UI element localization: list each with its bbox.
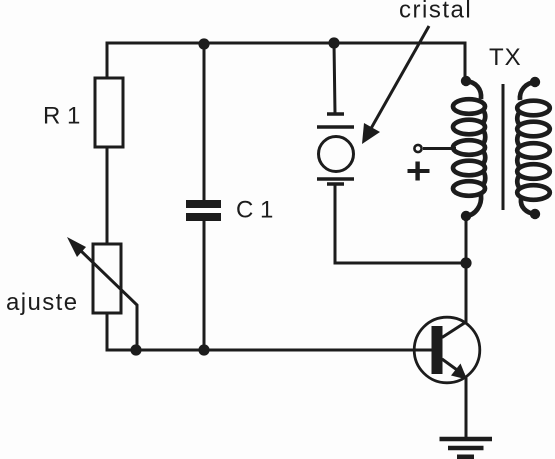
secondary top terminal blob (530, 77, 540, 87)
ground (440, 439, 493, 457)
wire crystal bottom lead (335, 186, 466, 263)
primary top terminal blob (461, 76, 471, 86)
plus symbol (408, 162, 430, 181)
pointer arrow cristal (362, 26, 429, 144)
junction dot top C1 (198, 38, 209, 49)
wire C1 bottom lead (203, 221, 206, 350)
wire collector lead (465, 263, 468, 322)
svg-text:TX: TX (489, 44, 522, 71)
transformer TX secondary coil (517, 82, 550, 214)
junction dot collector node (460, 257, 471, 268)
potentiometer ajuste (67, 237, 137, 350)
wire primary bottom to collector node (465, 219, 468, 263)
wire bottom rail (137, 349, 431, 352)
crystal XTAL (317, 114, 354, 184)
svg-text:R 1: R 1 (43, 103, 80, 130)
transistor Q1 (414, 317, 480, 383)
wire C1 top lead (203, 43, 206, 200)
svg-text:cristal: cristal (399, 0, 472, 24)
battery tap terminal (414, 145, 456, 152)
wire crystal top lead (334, 43, 335, 113)
wire left branch bottom (107, 313, 137, 350)
svg-text:C 1: C 1 (236, 197, 273, 224)
transformer TX primary coil (453, 81, 485, 216)
junction dot top crystal (328, 37, 339, 48)
resistor R1 (95, 78, 123, 147)
wire top rail (107, 42, 465, 45)
transformer core bar (502, 84, 505, 210)
capacitor C1 (186, 200, 221, 221)
wire left branch mid (106, 147, 109, 244)
primary bottom terminal blob (461, 211, 471, 221)
junction dot wiper bottom (130, 344, 141, 355)
wire left branch top (106, 43, 109, 78)
wire emitter lead (465, 379, 468, 438)
wire right rail to primary (464, 43, 467, 78)
svg-text:ajuste: ajuste (6, 289, 78, 316)
junction dot bottom C1 (198, 344, 209, 355)
secondary bottom terminal blob (530, 209, 540, 219)
